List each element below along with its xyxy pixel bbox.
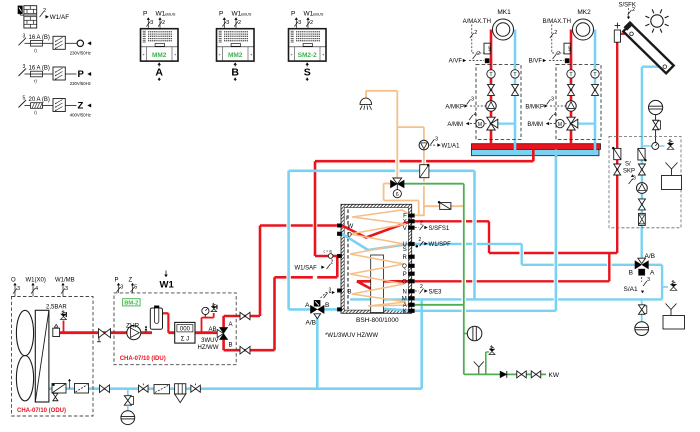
svg-text:P: P: [115, 278, 119, 284]
svg-text:KW: KW: [549, 372, 560, 379]
svg-text:A: A: [305, 302, 310, 309]
svg-text:3: 3: [551, 97, 554, 103]
svg-text:S: S: [403, 247, 407, 253]
svg-text:3: 3: [23, 33, 26, 39]
svg-text:16 A (B): 16 A (B): [29, 66, 50, 72]
svg-text:SM2-2: SM2-2: [298, 52, 318, 59]
svg-text:Q: Q: [402, 264, 407, 270]
svg-text:B/VF: B/VF: [529, 59, 543, 65]
svg-text:W1/SAF: W1/SAF: [295, 266, 318, 272]
svg-text:3: 3: [298, 20, 301, 26]
svg-text:P: P: [219, 11, 223, 18]
svg-text:MM2: MM2: [152, 52, 167, 59]
svg-text:MK2: MK2: [577, 9, 591, 16]
svg-text:Z: Z: [129, 278, 133, 284]
svg-text:2: 2: [420, 284, 423, 290]
svg-text:230V/50Hz: 230V/50Hz: [70, 81, 91, 86]
svg-text:400V/50Hz: 400V/50Hz: [70, 113, 91, 118]
svg-text:000: 000: [180, 327, 191, 333]
svg-text:c = d|: c = d|: [324, 250, 332, 254]
svg-text:SKP: SKP: [623, 169, 635, 175]
svg-text:D: D: [348, 233, 353, 239]
svg-text:eBUS: eBUS: [241, 12, 252, 17]
svg-text:*W1/3WUV HZ/WW: *W1/3WUV HZ/WW: [325, 333, 378, 339]
svg-text:2: 2: [162, 20, 165, 26]
svg-text:V: V: [403, 226, 407, 232]
svg-text:4: 4: [554, 112, 557, 118]
svg-text:B: B: [229, 343, 233, 349]
svg-text:B/MM: B/MM: [527, 122, 543, 128]
svg-text:X: X: [403, 219, 407, 225]
svg-text:MT: MT: [488, 45, 492, 51]
svg-text:B/MAX.TH: B/MAX.TH: [543, 19, 571, 25]
svg-text:MK1: MK1: [497, 9, 511, 16]
svg-text:3: 3: [23, 64, 26, 70]
svg-text:16 A (B): 16 A (B): [29, 35, 50, 41]
svg-text:N: N: [402, 289, 406, 295]
svg-text:eBUS: eBUS: [313, 12, 324, 17]
svg-text:2: 2: [557, 51, 560, 57]
svg-text:B/MKP: B/MKP: [525, 105, 544, 111]
svg-text:R: R: [402, 255, 407, 261]
svg-text:P: P: [403, 272, 407, 278]
svg-text:2: 2: [554, 30, 557, 36]
svg-text:A: A: [155, 67, 163, 79]
svg-text:3: 3: [120, 285, 123, 291]
svg-text:2: 2: [477, 51, 480, 57]
svg-text:A/B: A/B: [306, 320, 316, 327]
svg-text:5: 5: [23, 96, 26, 102]
svg-text:A/VF: A/VF: [449, 59, 463, 65]
svg-text:B: B: [348, 290, 352, 296]
svg-text:W1/AF: W1/AF: [50, 14, 69, 21]
svg-text:eBUS: eBUS: [165, 12, 176, 17]
svg-text:BSH-800/1000: BSH-800/1000: [356, 317, 399, 324]
svg-text:2: 2: [310, 20, 313, 26]
svg-text:A: A: [403, 303, 407, 309]
svg-text:BM-2: BM-2: [124, 300, 138, 306]
svg-text:B: B: [325, 302, 329, 309]
svg-text:A: A: [229, 322, 233, 328]
svg-text:3: 3: [329, 288, 332, 294]
svg-text:HZ/WW: HZ/WW: [198, 345, 219, 351]
svg-text:CHA-07/10 (ODU): CHA-07/10 (ODU): [17, 408, 66, 414]
svg-text:W1/A1: W1/A1: [442, 144, 461, 150]
svg-text:S/E3: S/E3: [429, 290, 443, 296]
svg-text:2: 2: [632, 7, 635, 13]
svg-text:W: W: [348, 224, 354, 230]
svg-text:W1/SPF: W1/SPF: [429, 242, 452, 248]
svg-text:5: 5: [134, 285, 137, 291]
svg-text:2: 2: [43, 8, 46, 14]
svg-text:W1(X0): W1(X0): [26, 278, 46, 284]
svg-text:2: 2: [420, 221, 423, 227]
svg-text:P: P: [78, 69, 85, 80]
svg-text:MT: MT: [568, 45, 572, 51]
svg-text:2: 2: [419, 237, 422, 243]
svg-text:O: O: [402, 280, 407, 286]
svg-text:O: O: [11, 278, 16, 284]
svg-text:230V/50Hz: 230V/50Hz: [70, 50, 91, 55]
svg-text:6: 6: [396, 192, 399, 198]
svg-text:3: 3: [471, 97, 474, 103]
svg-text:A: A: [650, 270, 655, 277]
svg-text:4: 4: [474, 112, 477, 118]
svg-text:3: 3: [633, 176, 636, 182]
svg-text:3: 3: [435, 136, 438, 142]
svg-text:4: 4: [35, 286, 38, 292]
svg-text:3: 3: [150, 20, 153, 26]
svg-text:P: P: [143, 11, 147, 18]
svg-text:2: 2: [474, 30, 477, 36]
svg-text:2: 2: [238, 20, 241, 26]
svg-text:M: M: [402, 297, 407, 303]
svg-text:B: B: [231, 67, 239, 79]
svg-text:3WUV: 3WUV: [201, 338, 218, 344]
svg-text:S/: S/: [625, 162, 631, 168]
svg-text:M: M: [558, 122, 562, 128]
svg-text:ZHP: ZHP: [126, 322, 139, 329]
svg-text:M: M: [478, 122, 482, 128]
svg-text:MM2: MM2: [228, 52, 243, 59]
svg-text:W1/MB: W1/MB: [55, 278, 75, 284]
svg-text:Z: Z: [78, 101, 84, 112]
svg-text:3: 3: [226, 20, 229, 26]
svg-text:S/SFS1: S/SFS1: [429, 226, 450, 232]
svg-text:3: 3: [65, 286, 68, 292]
svg-text:A/B: A/B: [645, 253, 655, 260]
svg-text:A/MKP: A/MKP: [445, 105, 464, 111]
svg-text:3: 3: [647, 277, 650, 283]
svg-text:W1: W1: [160, 280, 175, 291]
svg-text:AB: AB: [208, 327, 216, 333]
svg-text:P: P: [291, 11, 295, 18]
svg-text:S: S: [304, 67, 311, 79]
svg-text:S/A1: S/A1: [624, 286, 638, 293]
svg-text:B: B: [629, 270, 633, 277]
svg-text:Σ J: Σ J: [181, 337, 189, 343]
svg-text:K: K: [403, 309, 407, 315]
svg-text:20 A (B): 20 A (B): [29, 97, 50, 103]
svg-text:2,5BAR: 2,5BAR: [46, 304, 67, 310]
svg-text:CHA-07/10 (IDU): CHA-07/10 (IDU): [120, 356, 166, 362]
svg-text:A/MAX.TH: A/MAX.TH: [463, 19, 491, 25]
svg-text:A/MM: A/MM: [447, 122, 463, 128]
svg-text:2: 2: [331, 260, 334, 266]
svg-text:3: 3: [17, 286, 20, 292]
